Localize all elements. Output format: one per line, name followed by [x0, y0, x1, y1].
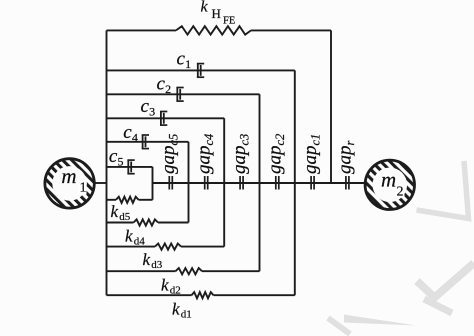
- svg-text:FE: FE: [223, 16, 235, 27]
- svg-text:k: k: [111, 202, 119, 221]
- svg-text:5: 5: [118, 155, 124, 169]
- svg-text:2: 2: [165, 82, 171, 96]
- svg-text:1: 1: [185, 57, 191, 71]
- svg-text:4: 4: [132, 131, 138, 145]
- svg-text:d4: d4: [134, 236, 146, 248]
- svg-text:gapr: gapr: [335, 141, 358, 175]
- svg-text:k: k: [172, 300, 180, 319]
- svg-text:1: 1: [80, 181, 87, 196]
- svg-text:d1: d1: [181, 309, 192, 321]
- svg-text:k: k: [125, 227, 133, 246]
- svg-text:m: m: [381, 168, 396, 192]
- svg-text:H: H: [212, 6, 221, 21]
- svg-text:d3: d3: [151, 259, 163, 271]
- svg-text:m: m: [61, 164, 76, 188]
- svg-text:2: 2: [397, 185, 404, 200]
- svg-text:d2: d2: [170, 285, 181, 297]
- svg-text:d5: d5: [119, 211, 131, 223]
- svg-text:k: k: [143, 250, 151, 269]
- svg-text:3: 3: [149, 104, 155, 118]
- svg-text:k: k: [201, 0, 209, 16]
- svg-text:k: k: [161, 276, 169, 295]
